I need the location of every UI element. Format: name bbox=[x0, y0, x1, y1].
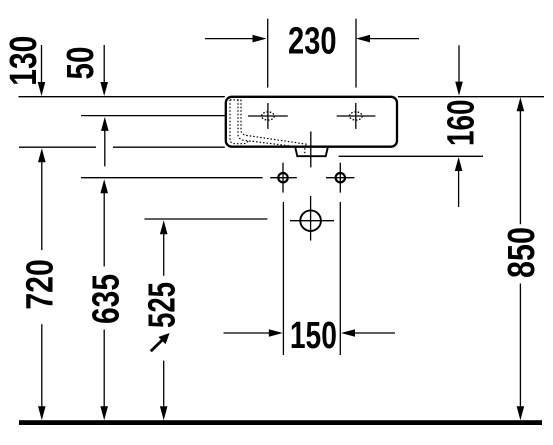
basin bowl lower slope dotted bbox=[238, 100, 298, 147]
wire rim line right bbox=[398, 96, 544, 98]
wire 130/720 reference line bbox=[19, 146, 225, 148]
dim 50 top arrow bbox=[100, 45, 108, 96]
drain tab below basin bbox=[295, 148, 327, 156]
drain circle bbox=[300, 210, 321, 231]
dim 150 arrow left bbox=[224, 329, 283, 337]
svg-text:525: 525 bbox=[142, 282, 184, 328]
basin body outline bbox=[226, 97, 397, 147]
svg-text:150: 150 bbox=[290, 315, 337, 357]
dim 230 arrow left bbox=[205, 35, 267, 43]
dim 525 line with arrows bbox=[160, 220, 168, 420]
svg-text:635: 635 bbox=[86, 274, 128, 324]
dim 130 top arrow bbox=[38, 45, 46, 96]
drain axis line upper bbox=[310, 132, 312, 168]
node 150 extension line right bbox=[339, 202, 341, 355]
wire rim line left bbox=[19, 96, 225, 98]
dim 150 arrow right bbox=[341, 329, 395, 337]
floor line bbox=[19, 420, 542, 425]
dim 635 line with arrows bbox=[100, 179, 108, 420]
dim 850 line with arrows bbox=[517, 97, 525, 420]
dim 720 line with arrows bbox=[38, 148, 46, 420]
node 230 extension line right bbox=[355, 19, 357, 88]
dim 50 bottom arrow bbox=[101, 117, 109, 166]
svg-text:720: 720 bbox=[20, 259, 62, 310]
wire 50 reference line bbox=[81, 115, 225, 117]
svg-text:850: 850 bbox=[501, 227, 543, 278]
drain crosshair bbox=[290, 196, 334, 241]
dim 230 arrow right bbox=[356, 35, 419, 43]
adjustable-height diagonal arrow for 525 bbox=[151, 333, 170, 351]
svg-text:160: 160 bbox=[441, 99, 483, 146]
mounting hole left crosshair bbox=[270, 163, 297, 193]
node 150 extension line left bbox=[282, 202, 284, 355]
svg-text:130: 130 bbox=[3, 36, 45, 86]
svg-text:230: 230 bbox=[288, 21, 337, 63]
basin bowl back wall + bottom corner dotted profile bbox=[230, 100, 248, 144]
wire 160 lower reference line bbox=[339, 155, 483, 157]
tap hole right crosshair bbox=[337, 103, 376, 129]
tap hole right dashed ellipse bbox=[350, 112, 363, 120]
mounting hole right circle bbox=[336, 173, 345, 182]
tap hole left dashed ellipse bbox=[262, 112, 275, 120]
mounting hole right crosshair bbox=[326, 163, 354, 193]
tap hole left crosshair bbox=[248, 103, 288, 129]
svg-text:50: 50 bbox=[60, 47, 102, 80]
node 230 extension line left bbox=[267, 19, 269, 88]
basin bowl upper slope dotted bbox=[241, 100, 307, 156]
wire mounting-hole line bbox=[81, 177, 263, 179]
dim 160 bottom arrow bbox=[455, 157, 463, 207]
wire 525 reference line bbox=[145, 218, 268, 220]
mounting hole left circle bbox=[278, 173, 287, 182]
dim 160 top arrow bbox=[455, 45, 463, 95]
